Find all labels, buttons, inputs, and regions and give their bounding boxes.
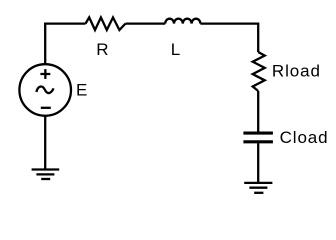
svg-text:E: E — [76, 80, 87, 99]
svg-text:L: L — [171, 40, 180, 59]
wire: source top terminal up and right to resistor R — [45, 24, 85, 65]
resistor R — [86, 17, 126, 30]
resistor Rload — [253, 52, 265, 91]
ground (left) — [32, 170, 60, 180]
wire: Cload to right ground — [257, 143, 259, 183]
voltage source E (circle) — [19, 64, 71, 116]
inductor L — [165, 19, 200, 24]
ground (right) — [244, 183, 272, 193]
svg-text:Cload: Cload — [280, 128, 329, 147]
wire: R to L — [125, 22, 165, 24]
wire: L right then down to Rload — [200, 24, 258, 52]
sine wave inside source — [36, 87, 53, 94]
capacitor Cload bottom plate — [243, 140, 273, 143]
capacitor Cload top plate — [243, 132, 273, 135]
wire: Rload to Cload — [257, 91, 259, 132]
svg-text:Rload: Rload — [272, 61, 321, 80]
minus sign inside source — [41, 107, 51, 109]
wire: source bottom to left ground — [44, 116, 46, 170]
plus sign inside source — [40, 69, 50, 79]
svg-text:R: R — [96, 40, 108, 59]
